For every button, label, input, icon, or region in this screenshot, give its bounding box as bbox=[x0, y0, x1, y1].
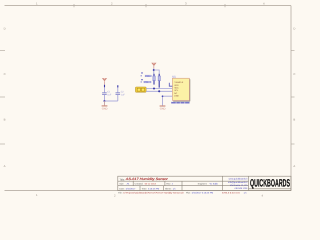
svg-text:Created:: Created: bbox=[135, 183, 144, 186]
IC U1 pin name rows bbox=[174, 81, 184, 97]
svg-text:C: C bbox=[293, 72, 295, 76]
svg-text:D: D bbox=[4, 27, 6, 31]
IC U1 GND pin wire bbox=[163, 96, 173, 106]
svg-text:Title:: Title: bbox=[119, 178, 125, 181]
connector JP1 bbox=[136, 87, 147, 92]
power symbol VDD (left) bbox=[102, 78, 107, 81]
wire power to C1 bbox=[104, 81, 106, 85]
svg-text:GND: GND bbox=[102, 108, 108, 111]
svg-text:04-11-2013: 04-11-2013 bbox=[145, 183, 157, 186]
svg-text:EAGLE 6.5.0 rev4: EAGLE 6.5.0 rev4 bbox=[222, 191, 240, 194]
wire C2 to bottom bbox=[117, 94, 119, 101]
address block text bbox=[228, 178, 248, 191]
wire SCL bbox=[146, 90, 172, 92]
frame column numbers bbox=[36, 2, 265, 198]
svg-text:SCL: SCL bbox=[145, 81, 148, 84]
svg-text:D: D bbox=[293, 27, 295, 31]
svg-text:AS-617 Humidity Sensor: AS-617 Humidity Sensor bbox=[125, 177, 169, 181]
net flag SDA bbox=[141, 72, 152, 77]
junction R1/SDA bbox=[153, 87, 155, 89]
frame column divider ticks top bbox=[74, 4, 225, 7]
svg-text:Sheet:: Sheet: bbox=[165, 187, 172, 190]
date/time row text bbox=[119, 187, 176, 190]
IC U1 shadow bbox=[173, 79, 190, 101]
power symbol VDD (right) bbox=[151, 63, 156, 66]
title block outline bbox=[118, 176, 291, 190]
svg-text:VDD: VDD bbox=[174, 84, 179, 87]
capacitor C1 bbox=[102, 93, 107, 95]
svg-text:info@quickboards.it: info@quickboards.it bbox=[228, 181, 248, 184]
wire SDA bbox=[146, 88, 172, 90]
svg-text:B: B bbox=[4, 118, 6, 122]
sheet frame border bbox=[5, 6, 292, 191]
frame row letters bbox=[4, 27, 296, 169]
capacitor C2 bbox=[116, 93, 121, 95]
junction node bbox=[103, 100, 105, 102]
size/date row text bbox=[119, 183, 218, 186]
svg-text:File:: File: bbox=[118, 191, 123, 194]
svg-text:C: C bbox=[4, 72, 6, 76]
svg-text:A: A bbox=[4, 164, 6, 168]
frame row divider ticks left/right bbox=[0, 51, 295, 145]
net flag SCL bbox=[141, 79, 151, 84]
svg-text:GND: GND bbox=[160, 108, 166, 111]
svg-text:1uF: 1uF bbox=[107, 93, 112, 96]
resistor R1 bbox=[153, 74, 155, 85]
svg-text:4/10/2017: 4/10/2017 bbox=[126, 187, 137, 190]
IC U1 VDD pin stub wire bbox=[169, 83, 172, 87]
svg-text:1uF: 1uF bbox=[121, 93, 126, 96]
svg-text:B: B bbox=[293, 118, 295, 122]
wire C1 to junction bbox=[104, 94, 106, 101]
capacitor C1 pin end marker bbox=[104, 85, 106, 87]
capacitor C2 labels bbox=[121, 91, 126, 97]
resistor R2 bbox=[158, 74, 160, 88]
svg-text:4/10/2017 3:18:25 PM: 4/10/2017 3:18:25 PM bbox=[192, 191, 214, 194]
file path row text bbox=[118, 191, 247, 194]
IC U1 body bbox=[172, 78, 189, 100]
svg-text:W. Sabb: W. Sabb bbox=[210, 183, 219, 186]
capacitor C1 labels bbox=[107, 91, 112, 97]
IC U1 part number bbox=[171, 102, 189, 104]
title row text bbox=[119, 177, 169, 181]
ground GND (right) bbox=[160, 106, 166, 111]
svg-text:QUICKBOARDS: QUICKBOARDS bbox=[250, 178, 290, 190]
svg-text:Engineer:: Engineer: bbox=[198, 183, 208, 186]
svg-text:3:18:25 PM: 3:18:25 PM bbox=[148, 187, 159, 190]
svg-text:www.quickboards.it: www.quickboards.it bbox=[229, 178, 248, 181]
svg-text:GND: GND bbox=[174, 94, 179, 97]
svg-text:A: A bbox=[293, 164, 295, 168]
ground GND (left) bbox=[102, 106, 108, 111]
wire bottom horizontal C1-C2 bbox=[105, 100, 118, 102]
svg-text:Time:: Time: bbox=[142, 187, 148, 190]
junction GND corner bbox=[162, 95, 164, 97]
svg-text:*SAMPLE: *SAMPLE bbox=[174, 81, 184, 84]
svg-text:Plot:: Plot: bbox=[186, 191, 191, 194]
capacitor C2 top pin with end marker bbox=[117, 85, 119, 92]
wire junction to ground bbox=[104, 101, 106, 106]
junction R2/SCL bbox=[158, 90, 160, 92]
junction at power split bbox=[153, 69, 155, 71]
wire branch to R2 top bbox=[154, 70, 159, 76]
svg-text:Rev:: Rev: bbox=[166, 183, 171, 186]
svg-text:+39 049 1234: +39 049 1234 bbox=[234, 187, 248, 190]
wire power down to R1 bbox=[153, 65, 155, 68]
svg-text:SDA: SDA bbox=[174, 87, 179, 90]
svg-text:Date:: Date: bbox=[119, 187, 125, 190]
svg-text:D:\Projects\QuickBoards\AS-617: D:\Projects\QuickBoards\AS-617\AS-617-Hu… bbox=[123, 191, 184, 194]
svg-text:Via Brenta 12, PD: Via Brenta 12, PD bbox=[230, 184, 248, 187]
